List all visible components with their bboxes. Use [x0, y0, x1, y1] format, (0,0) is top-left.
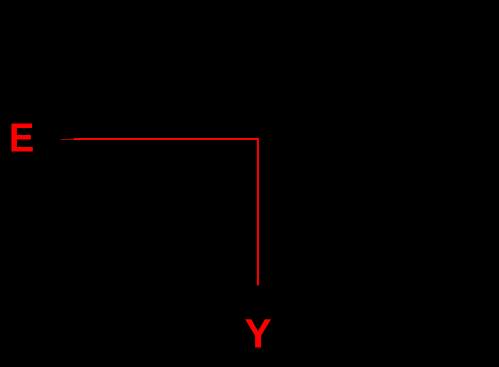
- svg-text:E: E: [9, 115, 34, 161]
- wire vertical segment: [257, 138, 259, 286]
- wire horizontal segment: [74, 138, 259, 140]
- svg-text:Y: Y: [244, 311, 271, 357]
- wire lead from E: [61, 139, 74, 141]
